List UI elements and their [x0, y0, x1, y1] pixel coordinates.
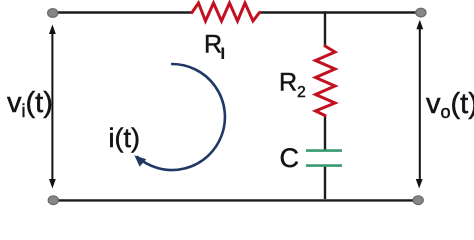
svg-text:vi(t): vi(t): [7, 87, 53, 121]
svg-text:i(t): i(t): [109, 123, 140, 153]
svg-text:R2: R2: [279, 69, 306, 102]
svg-text:vo(t): vo(t): [426, 88, 474, 122]
svg-text:R: R: [204, 31, 222, 59]
svg-text:C: C: [280, 143, 300, 173]
